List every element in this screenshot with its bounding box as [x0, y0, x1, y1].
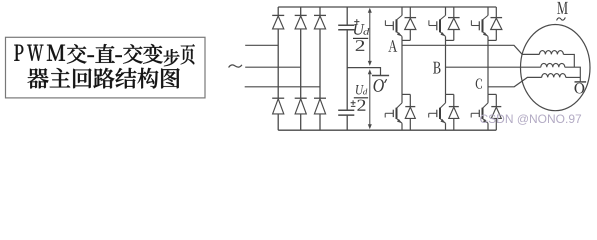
winding phase B — [541, 63, 565, 67]
wire upper pair junction bar — [488, 39, 496, 41]
winding phase C — [542, 74, 566, 78]
polarity + of C1 — [354, 19, 359, 24]
wire phase C to motor — [488, 77, 542, 86]
transistor VT2 (IGBT upper) — [429, 7, 446, 40]
node O neutral terminal bar — [575, 81, 587, 83]
wire bottom DC bus — [278, 129, 496, 131]
diode D1t (rectifier top) — [272, 15, 284, 29]
node C label — [476, 79, 482, 89]
wire lower pair junction bar — [488, 93, 496, 95]
wire top DC bus — [278, 6, 496, 8]
motor label M — [557, 2, 568, 14]
transistor VT6 (IGBT lower) — [471, 94, 488, 130]
diode D2b (rectifier bottom) — [295, 98, 307, 114]
wire phase vertical — [401, 40, 403, 94]
capacitor C2 (lower) — [338, 110, 354, 115]
label Ud/2 (lower) — [354, 85, 368, 111]
diode D3t (rectifier top) — [314, 15, 326, 29]
wire upper pair junction bar — [446, 39, 454, 41]
label Ud/2 (upper) — [353, 24, 369, 51]
voltage arrow Ud/2 lower — [368, 69, 372, 129]
transistor VT3 (IGBT upper) — [471, 7, 488, 40]
wire AC phase 1 — [245, 44, 278, 46]
polarity +- of C2 — [351, 100, 356, 106]
node A label — [388, 40, 397, 52]
voltage arrow Ud/2 upper — [368, 8, 372, 66]
capacitor C1 (upper) — [338, 25, 354, 29]
node O' midpoint terminal bar — [372, 75, 389, 77]
diode D3b (rectifier bottom) — [314, 98, 326, 114]
wire upper pair junction bar — [402, 39, 410, 41]
title box frame — [6, 37, 206, 98]
wire phase vertical — [487, 40, 489, 94]
motor label ~ — [557, 17, 566, 20]
wire winding A to neutral — [563, 54, 574, 67]
wire lower pair junction bar — [402, 93, 410, 95]
diode VD5 (freewheel lower) — [449, 94, 459, 130]
wire AC phase 3 — [245, 86, 320, 88]
transistor VT4 (IGBT lower) — [385, 94, 402, 130]
transistor VT1 (IGBT upper) — [385, 7, 402, 40]
diode VD4 (freewheel lower) — [405, 94, 415, 130]
node B label — [433, 62, 441, 74]
wire AC phase 2 — [245, 66, 301, 68]
wire winding B to neutral — [565, 67, 581, 82]
AC source symbol ~ — [229, 65, 242, 68]
motor M stator circle — [521, 25, 591, 111]
wire rectifier leg 3 — [319, 7, 321, 15]
transistor VT5 (IGBT lower) — [429, 94, 446, 130]
node O label — [575, 83, 585, 94]
wire midpoint rail — [347, 68, 380, 76]
wire rectifier leg 1 — [277, 7, 279, 15]
wire winding C to neutral — [566, 76, 581, 78]
node O' label — [374, 79, 387, 92]
wire phase A to motor — [402, 45, 539, 54]
wire lower pair junction bar — [446, 93, 454, 95]
diode VD2 (freewheel upper) — [448, 7, 460, 40]
wire rectifier leg 2 — [300, 7, 302, 15]
diode D2t (rectifier top) — [295, 15, 307, 29]
diode VD3 (freewheel upper) — [491, 7, 503, 40]
title text line 1: PWM交-直-交变频 — [14, 44, 195, 66]
winding phase A — [539, 51, 563, 55]
wire DC-link rail — [346, 7, 348, 25]
title text line 2: 器主回路结构图 — [28, 68, 180, 89]
diode VD1 (freewheel upper) — [405, 7, 417, 40]
wire phase B to motor — [446, 66, 541, 68]
svg-text:CSDN @NONO.97: CSDN @NONO.97 — [480, 112, 583, 126]
diode VD6 (freewheel lower) — [491, 94, 501, 130]
wire phase vertical — [445, 40, 447, 94]
diode D1b (rectifier bottom) — [272, 98, 284, 114]
